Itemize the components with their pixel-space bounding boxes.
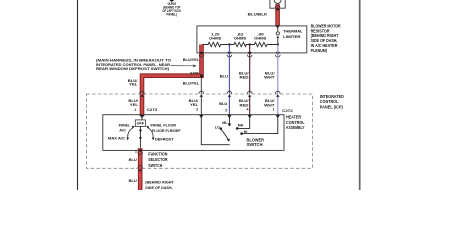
svg-text:2: 2: [196, 108, 198, 112]
wire BLU/YEL splice to blower switch (thin): [200, 77, 202, 115]
connector at resistor box exit BLU: [227, 52, 231, 55]
blower motor M1 (top, cut off): [270, 0, 285, 8]
svg-text:YEL: YEL: [129, 82, 138, 87]
arrows into heater box: [140, 115, 280, 119]
page border right: [359, 0, 361, 190]
svg-text:3: 3: [225, 108, 227, 112]
blower switch: [201, 115, 277, 145]
node thermal limiter junction: [277, 43, 279, 45]
arrow out of resistor box: [199, 52, 203, 55]
svg-text:BLU: BLU: [129, 178, 137, 183]
heater control assembly box: [103, 115, 284, 151]
page border left: [77, 0, 79, 190]
svg-text:BLU: BLU: [129, 157, 137, 162]
svg-text:YEL: YEL: [130, 102, 139, 107]
wire BLU/RED: [249, 45, 251, 115]
node tap BLU/RED: [249, 43, 251, 45]
svg-text:C273: C273: [147, 107, 158, 112]
svg-text:OFF: OFF: [137, 122, 145, 126]
svg-text:OHMS: OHMS: [209, 36, 222, 41]
svg-text:C272: C272: [282, 108, 293, 113]
blower motor resistor box: [197, 26, 307, 53]
svg-text:1: 1: [273, 108, 275, 112]
connector at bottom dashed line: [138, 166, 143, 168]
connector at resistor box exit BLU/WHT: [276, 52, 280, 55]
svg-text:HI: HI: [244, 130, 248, 134]
ICP dashed boundary: [86, 94, 312, 168]
node tap BLU: [228, 43, 230, 45]
connector halves at ICP dashed line: [140, 91, 280, 93]
svg-text:BLU/YEL: BLU/YEL: [183, 80, 200, 85]
connector at resistor box exit BLU/RED: [248, 52, 252, 55]
resistor bus with resistors R1 R2 R3: [202, 42, 278, 46]
wire BLU output of function selector (highlighted red): [138, 148, 143, 190]
svg-text:FLOOR FLR/DEF: FLOOR FLR/DEF: [152, 128, 181, 133]
svg-text:BLU/YEL: BLU/YEL: [183, 57, 200, 62]
label blower motor resistor: [311, 23, 341, 53]
callout leader arrow: [171, 64, 197, 67]
wire BLU/YEL from resistor (highlighted red), splice, to C273: [142, 45, 202, 117]
svg-text:2: 2: [135, 150, 137, 154]
svg-text:ASSEMBLY: ASSEMBLY: [286, 125, 305, 130]
svg-text:PANEL FLOOR: PANEL FLOOR: [151, 123, 177, 128]
svg-text:SIDE OF DASH,: SIDE OF DASH,: [145, 185, 172, 190]
arrow into resistor box: [275, 25, 279, 28]
svg-text:BLU: BLU: [219, 101, 227, 106]
arrow out of heater box: [138, 149, 142, 152]
svg-text:WHT: WHT: [264, 75, 275, 80]
function selector switch: [127, 116, 155, 148]
wire BLU: [228, 45, 230, 115]
svg-text:RED: RED: [240, 75, 249, 80]
svg-text:PANEL (ICP): PANEL (ICP): [320, 105, 344, 110]
svg-text:4: 4: [247, 108, 249, 112]
label integrated control panel: [320, 94, 344, 110]
svg-text:A/C: A/C: [119, 127, 126, 132]
wire BLU/BLK blower motor feed (highlighted red): [275, 4, 280, 26]
labels blower switch positions: [215, 121, 248, 134]
svg-text:BLU/BLK: BLU/BLK: [248, 12, 268, 17]
svg-text:THERMAL: THERMAL: [283, 29, 303, 34]
wire BLU/WHT: [277, 45, 279, 115]
splice S206: [200, 74, 203, 77]
svg-text:MAX A/C: MAX A/C: [108, 136, 125, 141]
svg-text:OHMS: OHMS: [234, 36, 247, 41]
svg-text:LIMITER: LIMITER: [283, 34, 301, 39]
svg-text:1: 1: [134, 108, 136, 112]
labels function selector positions: [108, 123, 181, 142]
svg-text:SELECTOR: SELECTOR: [148, 157, 167, 162]
svg-text:PLENUM): PLENUM): [311, 48, 328, 53]
label heater control assembly: [286, 115, 305, 130]
svg-text:REAR WINDOW DEFROST SWITCH): REAR WINDOW DEFROST SWITCH): [96, 66, 170, 71]
svg-text:FUNCTION: FUNCTION: [148, 152, 167, 157]
ground G200: [162, 0, 181, 17]
svg-text:SWITCH: SWITCH: [247, 142, 263, 147]
svg-text:S206: S206: [190, 71, 199, 75]
svg-text:ML: ML: [222, 121, 228, 125]
arrow into blower motor: [276, 7, 280, 10]
svg-text:CONTROL: CONTROL: [320, 99, 339, 104]
svg-text:MH: MH: [238, 124, 244, 128]
label function selector switch: [148, 152, 167, 168]
labels below ICP line with pin numbers: [128, 98, 275, 112]
svg-text:DEFROST: DEFROST: [155, 137, 174, 142]
svg-text:OHMS: OHMS: [254, 36, 267, 41]
svg-text:BLU: BLU: [220, 74, 228, 79]
svg-text:YEL: YEL: [190, 102, 199, 107]
svg-text:PANEL): PANEL): [167, 13, 178, 17]
svg-text:LO: LO: [215, 126, 220, 130]
svg-text:(BEHIND RIGHT: (BEHIND RIGHT: [145, 180, 174, 185]
svg-text:SWITCH: SWITCH: [148, 163, 162, 168]
thermal limiter: [276, 26, 303, 45]
callout main harness (red text): [96, 57, 171, 71]
